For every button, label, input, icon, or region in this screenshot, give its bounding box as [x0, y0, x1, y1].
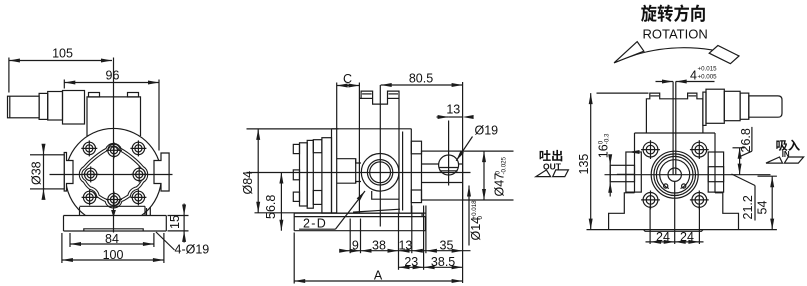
base chamfer line — [353, 209, 400, 212]
svg-text:Ø19: Ø19 — [475, 124, 499, 138]
shaft boss (Ø38) — [44, 155, 65, 189]
dim 54 — [771, 176, 773, 229]
dim 16 — [609, 158, 611, 197]
central bearing circles — [651, 151, 698, 198]
right port boss — [708, 152, 723, 192]
Ø19 hole circle — [439, 155, 459, 175]
bolt bottom-right — [130, 189, 146, 205]
body square — [635, 132, 716, 134]
step under circle — [372, 191, 399, 199]
shaft segment 2 (ring) — [39, 93, 48, 119]
svg-text:23: 23 — [404, 255, 418, 269]
bolt bottom-left — [82, 189, 98, 205]
svg-text:54: 54 — [756, 201, 770, 215]
flange outer circle (clipped at base top) — [66, 128, 162, 215]
svg-text:-0.025: -0.025 — [501, 156, 508, 174]
right bracket over circle — [154, 153, 169, 191]
bolt top-left — [81, 140, 97, 156]
body sides to base — [79, 207, 81, 216]
base relief — [644, 230, 704, 232]
Ø38 dim arrows — [30, 154, 45, 156]
dim 26.8 — [733, 147, 745, 149]
dim 105 — [9, 60, 112, 62]
svg-text:ROTATION: ROTATION — [642, 27, 707, 42]
flange bolt heads left — [293, 144, 299, 153]
svg-text:Ø84: Ø84 — [241, 171, 255, 195]
keyway dim 4 +0.015/+0.005 — [656, 81, 674, 83]
dim 96 — [64, 82, 159, 84]
bolt mid-right — [131, 166, 147, 182]
IN arrow symbol — [766, 157, 783, 163]
svg-text:21.2: 21.2 — [741, 195, 755, 219]
horizontal centerline — [247, 172, 471, 174]
pipe bore lines — [422, 163, 463, 165]
bottom dim row 2: 23 38.5 — [399, 266, 463, 268]
rotation arc — [614, 48, 739, 63]
svg-text:84: 84 — [105, 232, 119, 246]
horizontal centerline — [605, 174, 771, 176]
base — [294, 212, 422, 214]
shaft bore — [668, 168, 681, 181]
vertical centerline — [113, 58, 115, 233]
dim 135 — [590, 93, 592, 230]
dim Ø14 — [468, 186, 470, 246]
keyway lines — [672, 82, 674, 175]
dim 80.5 — [381, 84, 463, 86]
rear cover line — [398, 129, 400, 213]
snap ring eyes — [664, 184, 668, 188]
dim 24 24 — [646, 241, 704, 243]
snap ring arc — [660, 160, 690, 189]
dim 100 — [62, 259, 164, 261]
flange plate C — [322, 138, 332, 213]
bolt top-center — [106, 142, 122, 158]
svg-text:13: 13 — [398, 239, 412, 253]
body top edge — [332, 128, 412, 130]
svg-text:80.5: 80.5 — [409, 72, 433, 86]
svg-text:A: A — [374, 268, 383, 282]
svg-text:105: 105 — [52, 47, 73, 61]
hole centerline vertical — [448, 121, 450, 186]
right port slot lines — [708, 167, 723, 182]
shaft segment 1 (tip) — [8, 96, 40, 118]
body outline top — [87, 97, 141, 136]
svg-text:24: 24 — [680, 230, 694, 244]
shaft segment C — [724, 91, 740, 120]
svg-text:0: 0 — [477, 216, 484, 220]
left port bracket over circle — [64, 153, 73, 192]
gear housing left edge — [358, 83, 360, 214]
body top tab right — [128, 93, 139, 98]
OUT arrow symbol — [536, 170, 551, 177]
shaft segment E (end) — [749, 96, 782, 119]
label 4-Ø19 — [156, 232, 175, 250]
svg-text:26.8: 26.8 — [739, 128, 753, 152]
svg-text:Ø47: Ø47 — [493, 173, 507, 197]
svg-text:135: 135 — [577, 154, 591, 175]
shaft segment 3 — [48, 92, 63, 121]
dim Ø84 — [247, 128, 339, 130]
shaft segment 4 (bearing block) — [63, 91, 85, 125]
shaft segment A — [703, 92, 706, 125]
body top tab left — [89, 93, 100, 98]
dim 13 (hole offset) — [449, 116, 463, 118]
base bottom line — [64, 230, 167, 232]
base profile left — [609, 193, 635, 230]
rear port tabs — [411, 141, 421, 154]
rear face — [410, 129, 412, 213]
base sides — [63, 216, 65, 232]
svg-text:+0.005: +0.005 — [698, 74, 718, 81]
shaft segment D (ring) — [740, 93, 749, 119]
svg-text:100: 100 — [103, 248, 124, 262]
vertical bore centerline — [379, 85, 381, 227]
dim A — [294, 280, 462, 282]
bolt bottom-center — [106, 192, 122, 208]
svg-text:96: 96 — [106, 69, 120, 83]
corner bolts — [641, 140, 660, 159]
left port slot — [610, 165, 634, 181]
svg-text:16: 16 — [597, 144, 611, 158]
flange bolt heads right — [313, 140, 322, 153]
bolt top-right — [130, 140, 146, 156]
flange plate B — [307, 140, 313, 208]
dim Ø47 — [463, 150, 514, 152]
svg-text:15: 15 — [168, 215, 182, 229]
svg-text:38: 38 — [372, 239, 386, 253]
shaft segment B (large) — [706, 89, 724, 123]
旋转方向 label — [641, 5, 657, 22]
svg-text:4: 4 — [690, 69, 697, 83]
svg-text:35: 35 — [440, 239, 454, 253]
bolt mid-left — [83, 166, 99, 182]
dim 56.8 — [280, 173, 282, 231]
svg-text:56.8: 56.8 — [264, 195, 278, 219]
bearing boss mid — [337, 159, 361, 184]
svg-text:+0.015: +0.015 — [698, 66, 718, 73]
flange plate A — [300, 143, 308, 206]
dim 84 — [70, 243, 154, 245]
svg-text:24: 24 — [656, 230, 670, 244]
label Ø19 with leader — [456, 137, 472, 161]
body front face — [331, 129, 333, 213]
top block outline with tabs and notch — [359, 91, 399, 129]
吐出 OUT label — [540, 150, 551, 161]
base profile right — [715, 193, 739, 230]
body bottom edge — [332, 212, 427, 214]
rotation tail (parallelogram) — [709, 46, 739, 64]
svg-text:-0.3: -0.3 — [604, 133, 611, 144]
rotation arrowhead (triangle) — [614, 42, 644, 63]
suction pipe — [422, 151, 463, 200]
vertical centerline — [674, 182, 676, 244]
top block — [646, 93, 703, 133]
base top line — [64, 215, 167, 217]
dim 15 — [168, 215, 189, 217]
left port boss — [626, 152, 641, 192]
svg-text:Ø38: Ø38 — [30, 161, 44, 185]
svg-text:13: 13 — [446, 103, 460, 117]
svg-text:9: 9 — [352, 239, 359, 253]
horizontal centerline — [50, 174, 173, 176]
centerline end arrow — [111, 210, 116, 218]
svg-text:4-Ø19: 4-Ø19 — [175, 243, 210, 257]
scalloped gasket contour (double line) — [81, 145, 147, 207]
svg-text:C: C — [343, 72, 352, 86]
base bottom — [587, 229, 777, 231]
bottom dim row 1: 9 38 13 35 — [344, 250, 471, 252]
svg-text:2-D: 2-D — [303, 217, 327, 231]
svg-text:38.5: 38.5 — [431, 255, 455, 269]
base plateau — [80, 205, 146, 207]
central port circles — [361, 154, 399, 192]
dim C — [337, 85, 360, 87]
body section line 1 — [336, 129, 338, 213]
吸入 IN label — [776, 140, 787, 151]
base relief line — [84, 229, 143, 231]
